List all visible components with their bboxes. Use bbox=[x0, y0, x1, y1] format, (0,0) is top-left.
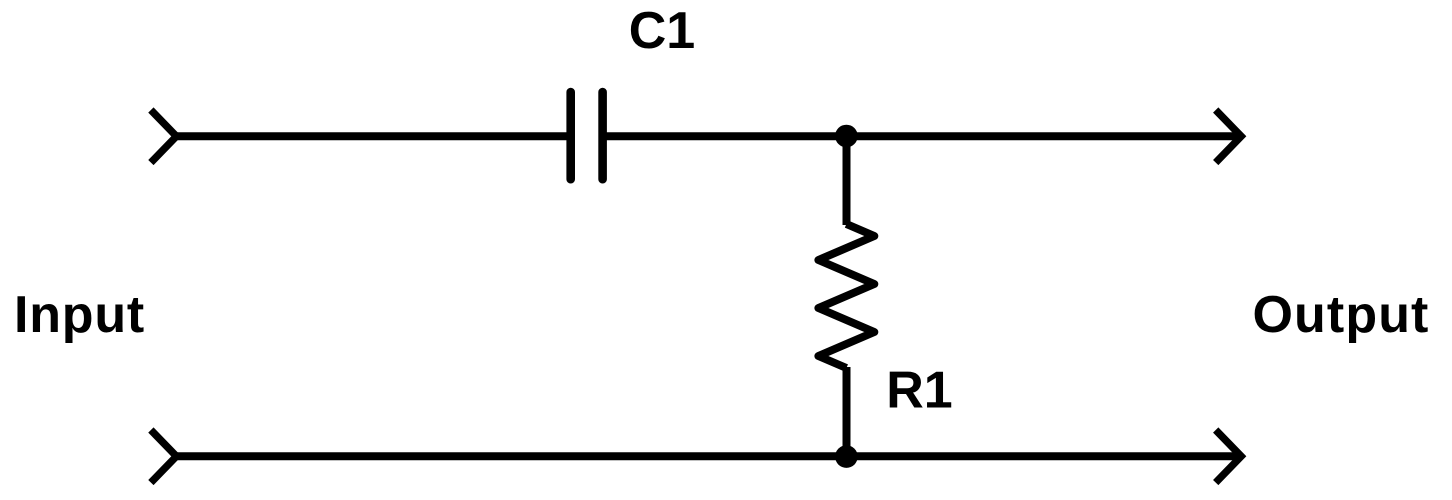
svg-text:Output: Output bbox=[1253, 286, 1430, 344]
svg-text:R1: R1 bbox=[886, 362, 952, 420]
resistor R1 zigzag bbox=[818, 224, 874, 368]
node A (top junction dot) bbox=[835, 125, 858, 148]
input terminal chevron bottom bbox=[151, 430, 177, 483]
node B (bottom junction dot) bbox=[835, 445, 858, 468]
input terminal chevron top bbox=[151, 110, 177, 163]
arrowhead bottom-right bbox=[1216, 430, 1242, 483]
capacitor C1 bbox=[571, 92, 603, 179]
svg-text:Input: Input bbox=[14, 286, 145, 344]
wire top-right segment bbox=[603, 132, 1242, 140]
svg-text:C1: C1 bbox=[629, 2, 695, 60]
wire resistor bottom lead bbox=[843, 367, 851, 456]
wire resistor top lead bbox=[843, 136, 851, 225]
wire top-left segment bbox=[176, 132, 570, 140]
wire bottom bbox=[176, 452, 1242, 460]
arrowhead top-right bbox=[1216, 110, 1242, 163]
